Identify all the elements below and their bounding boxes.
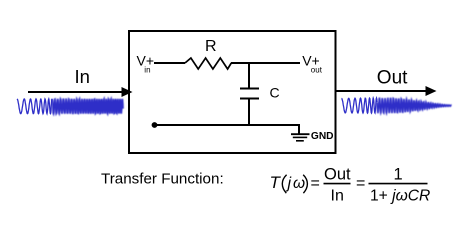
svg-text:in: in — [144, 65, 150, 74]
svg-text:=: = — [311, 175, 320, 192]
svg-text:Out: Out — [324, 165, 351, 183]
svg-text:R: R — [205, 38, 217, 55]
svg-text:In: In — [75, 66, 90, 87]
svg-text:ω: ω — [293, 175, 305, 192]
svg-text:1: 1 — [394, 165, 403, 183]
svg-text:C: C — [270, 85, 280, 101]
svg-text:In: In — [331, 187, 344, 204]
svg-text:T: T — [270, 173, 282, 192]
svg-text:=: = — [356, 175, 365, 192]
svg-text:Out: Out — [377, 68, 408, 89]
svg-text:out: out — [311, 66, 323, 75]
svg-text:1+ jωCR: 1+ jωCR — [370, 187, 430, 204]
svg-text:Transfer Function:: Transfer Function: — [101, 171, 224, 188]
svg-text:GND: GND — [311, 131, 334, 142]
